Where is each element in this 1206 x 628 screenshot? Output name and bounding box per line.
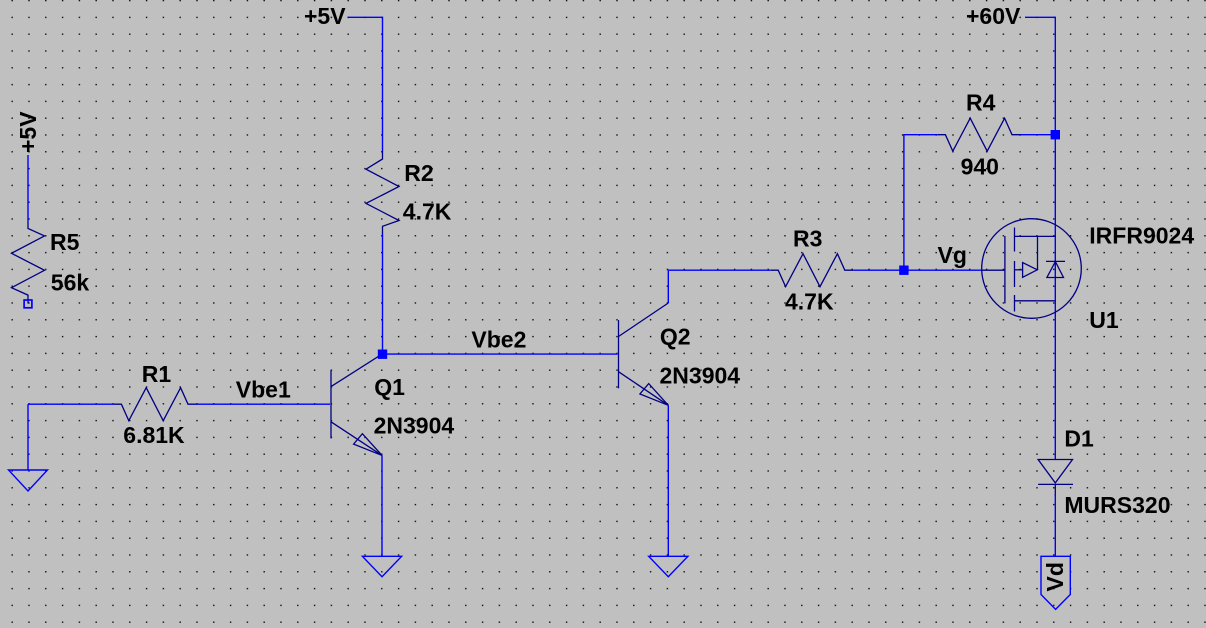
wire Q1 emitter to ground [381,455,383,556]
wire from node Vg to U1 gate [904,269,982,271]
output port flag Vd [1041,556,1070,609]
wire D1 to output flag Vd [1054,494,1056,556]
wire R3 to node Vg [853,269,904,271]
svg-text:R3: R3 [793,226,822,252]
wire Q2 collector up and right to R3 [668,270,770,303]
wire from R2 to node A [382,234,384,354]
wire from +5V label to R2 column [348,17,383,151]
svg-text:Vbe2: Vbe2 [471,326,526,352]
resistor R1 [114,388,197,421]
resistor R5 [12,221,45,304]
resistor R3 [771,254,854,287]
svg-text:Q1: Q1 [374,374,405,400]
svg-text:2N3904: 2N3904 [660,362,741,388]
wire R1 to Q1 base, net Vbe1 [197,403,331,405]
svg-text:D1: D1 [1064,425,1094,451]
svg-text:2N3904: 2N3904 [374,412,455,438]
svg-text:R4: R4 [966,89,996,115]
wire node B down through U1 to D1 [1054,135,1056,459]
diode D1 MURS320 [1038,460,1073,497]
svg-text:+5V: +5V [15,111,41,153]
transistor Q1 (2N3904 NPN) [331,354,383,456]
ground (Q1 emitter) [362,556,401,576]
svg-text:IRFR9024: IRFR9024 [1089,222,1194,248]
svg-text:940: 940 [961,154,999,180]
ground (left, at R1 input) [9,404,48,491]
wire from ground to R1 [28,403,114,405]
transistor Q2 (2N3904 NPN) [619,303,669,405]
svg-text:4.7K: 4.7K [403,199,452,225]
resistor R4 [938,118,1021,151]
svg-text:R1: R1 [142,361,172,387]
svg-text:56k: 56k [51,270,90,296]
svg-text:+5V: +5V [304,3,346,29]
svg-text:Vd: Vd [1042,562,1068,591]
ground (Q2 emitter) [649,556,688,576]
svg-text:R2: R2 [404,160,433,186]
svg-text:U1: U1 [1089,307,1119,333]
wire R4 to node B [1020,134,1055,136]
wire Q2 emitter to ground [667,405,669,556]
svg-text:4.7K: 4.7K [785,289,834,315]
node Vg junction [899,266,908,275]
svg-text:6.81K: 6.81K [123,422,185,448]
svg-text:Vbe1: Vbe1 [236,377,291,403]
svg-text:+60V: +60V [966,3,1021,29]
svg-text:MURS320: MURS320 [1064,492,1170,518]
wire node Vg up to R4 [904,135,938,271]
svg-text:R5: R5 [50,229,80,255]
node A junction (R2 / Q1 collector / Vbe2) [378,350,387,359]
wire from +5V label to R5 [27,155,29,221]
MOSFET U1 IRFR9024 (P-channel) [982,219,1082,319]
port square at bottom of R5 [24,300,32,308]
wire node A to Q2 base, net Vbe2 [383,353,618,355]
resistor R2 [366,151,399,234]
wire from +60V label down to node B [1025,17,1055,134]
svg-text:Vg: Vg [938,242,967,268]
node B junction (+60V / R4 / U1 source) [1051,130,1060,139]
svg-text:Q2: Q2 [660,323,691,349]
